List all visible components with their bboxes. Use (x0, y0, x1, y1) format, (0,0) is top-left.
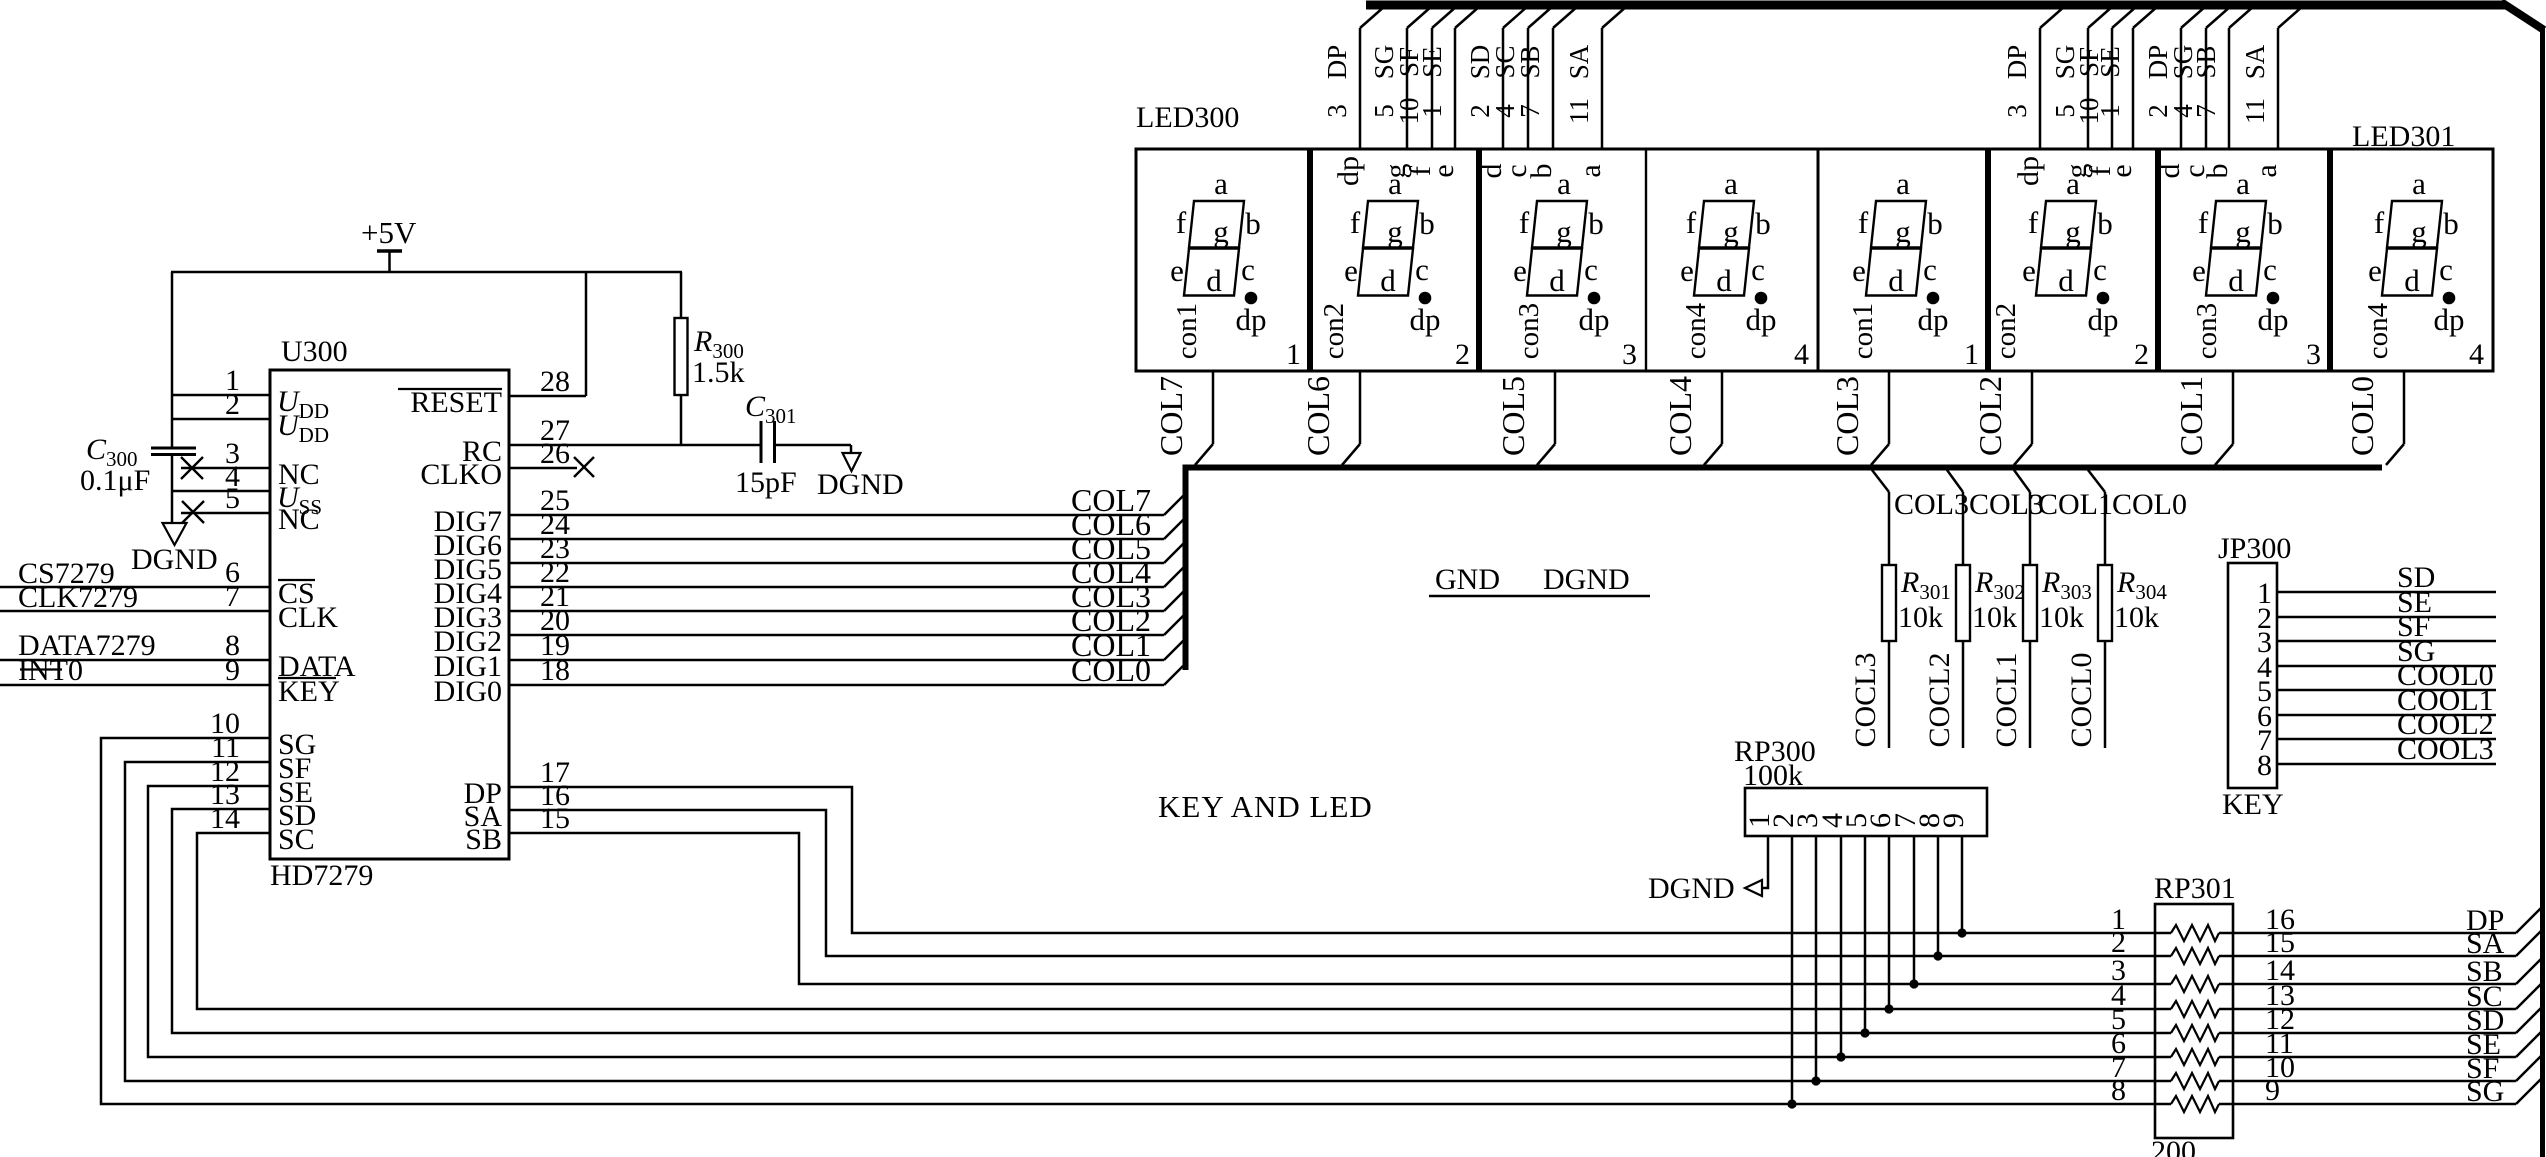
RP301 resistor element 1 zigzag (2171, 925, 2219, 941)
svg-text:a: a (1574, 164, 1607, 177)
wire segment pin 2 SD to top bus (1502, 28, 1505, 149)
wire RP300 pin 3 to row (1815, 836, 1818, 1081)
svg-text:SA: SA (1564, 44, 1594, 79)
svg-text:g: g (2235, 214, 2251, 249)
svg-text:COL1: COL1 (2173, 376, 2209, 456)
svg-text:a: a (1896, 166, 1910, 201)
svg-text:10k: 10k (2039, 601, 2084, 634)
svg-text:COL3: COL3 (1829, 376, 1865, 456)
svg-text:c: c (1241, 252, 1255, 287)
wire DIG COL5 (509, 562, 1164, 565)
wire cell 8 common to bus (COL0) (2403, 371, 2406, 444)
svg-text:COL0: COL0 (2344, 376, 2380, 456)
RP301 resistor element 6 zigzag (2171, 1049, 2219, 1065)
wire JP300 pin 3 SF (2277, 640, 2496, 643)
svg-text:COCL1: COCL1 (1990, 652, 2023, 747)
svg-text:3: 3 (1622, 338, 1637, 371)
svg-text:RP301: RP301 (2154, 872, 2236, 905)
svg-text:7: 7 (2191, 104, 2221, 118)
wire bus tap to resistor R303 (2014, 470, 2030, 492)
svg-text:d: d (1206, 263, 1222, 298)
svg-text:3: 3 (2002, 104, 2032, 118)
IC U300 HD7279 chip body (270, 370, 509, 859)
svg-text:8: 8 (2111, 1074, 2126, 1107)
wire segment pin 3 DP to top bus (1359, 28, 1362, 149)
svg-text:1: 1 (1964, 338, 1979, 371)
svg-text:COL7: COL7 (1153, 376, 1189, 456)
svg-text:f: f (1858, 205, 1869, 240)
wire INT0 (0, 684, 270, 687)
svg-text:g: g (1895, 214, 1911, 249)
svg-text:SB: SB (2191, 45, 2221, 78)
wire bus tap to resistor R301 (1872, 470, 1889, 492)
wire cell 5 common to bus (COL3) (1888, 371, 1891, 444)
svg-text:SB: SB (465, 823, 502, 856)
svg-text:e: e (2022, 253, 2036, 288)
svg-text:11: 11 (2240, 98, 2270, 124)
wire JP300 pin 8 COOL3 (2277, 763, 2496, 766)
svg-text:DP: DP (2002, 45, 2032, 80)
wire resistor R303 to COCL1 (2029, 641, 2032, 748)
svg-text:e: e (2105, 164, 2138, 177)
svg-text:dp: dp (1332, 156, 1365, 186)
wire RESET pull-up branch (585, 272, 588, 396)
svg-text:4: 4 (1794, 338, 1809, 371)
wire RP300 pin 4 to row (1840, 836, 1843, 1057)
svg-text:c: c (2093, 252, 2107, 287)
wire RP300 pin 5 to row (1864, 836, 1867, 1033)
wire segment pin 10 SF to top bus (2111, 28, 2114, 149)
wire cell 4 common to bus (COL4) (1721, 371, 1724, 444)
svg-text:d: d (2228, 263, 2244, 298)
wire DP from pin to bottom bus (509, 787, 2171, 933)
svg-text:con1: con1 (1847, 303, 1879, 359)
wire DIG COL3 (509, 610, 1164, 613)
svg-text:CLK: CLK (278, 601, 338, 634)
svg-text:10k: 10k (1898, 601, 1943, 634)
wire segment pin 3 DP to top bus (2039, 28, 2042, 149)
wire pin5 NC stub with X (181, 512, 270, 515)
svg-text:g: g (1723, 214, 1739, 249)
wire segment pin 4 SG to top bus (2205, 28, 2208, 149)
wire SC slant to right bus (2516, 983, 2542, 1009)
svg-text:e: e (1427, 164, 1460, 177)
svg-text:a: a (2250, 164, 2283, 177)
svg-text:DGND: DGND (817, 468, 904, 501)
svg-text:11: 11 (1564, 98, 1594, 124)
svg-text:28: 28 (540, 365, 570, 398)
wire SA slant to right bus (2516, 930, 2542, 956)
svg-text:COL5: COL5 (1495, 376, 1531, 456)
wire DIG COL4 (509, 586, 1164, 589)
wire pin4 USS (172, 490, 270, 493)
svg-text:COL3: COL3 (1969, 488, 2044, 521)
svg-text:10k: 10k (1972, 601, 2017, 634)
wire segment pin 7 SB to top bus (2228, 28, 2231, 149)
svg-text:con1: con1 (1171, 303, 1203, 359)
svg-text:b: b (2443, 206, 2459, 241)
wire SC from pin to bottom bus (197, 833, 2171, 1009)
svg-text:b: b (1927, 206, 1943, 241)
bus top right slant (2501, 2, 2544, 30)
resistor R303 (2023, 565, 2037, 641)
wire cell 7 common to bus (COL1) (2232, 371, 2235, 444)
wire pin3 NC stub with X (181, 467, 270, 470)
svg-text:COL0: COL0 (1071, 652, 1151, 688)
LED300 display package (1136, 149, 1818, 371)
svg-text:SA: SA (2240, 44, 2270, 79)
svg-text:KEY AND LED: KEY AND LED (1158, 789, 1373, 824)
svg-text:JP300: JP300 (2218, 532, 2291, 565)
display cell separator thick 2'|3' (2155, 149, 2161, 371)
svg-text:e: e (1170, 253, 1184, 288)
svg-text:con3: con3 (1513, 303, 1545, 359)
wire SD from pin to bottom bus (172, 809, 2171, 1033)
svg-text:c: c (1584, 252, 1598, 287)
svg-text:g: g (1213, 214, 1229, 249)
svg-text:2: 2 (2134, 338, 2149, 371)
display cell separator thin 3|4 (1645, 149, 1647, 371)
svg-text:HD7279: HD7279 (270, 859, 373, 892)
display cell separator thick 3'|4' (2327, 149, 2333, 371)
junction RP300 pin 8 (1933, 951, 1942, 960)
RP301 resistor element 5 zigzag (2171, 1025, 2219, 1041)
svg-text:b: b (1755, 206, 1771, 241)
bus vertical (column bus) (1183, 465, 1189, 671)
wire pin2 UDD (172, 418, 270, 421)
svg-text:e: e (2192, 253, 2206, 288)
svg-text:a: a (1214, 166, 1228, 201)
svg-text:f: f (1519, 205, 1530, 240)
svg-text:COCL3: COCL3 (1849, 652, 1882, 747)
svg-text:a: a (1557, 166, 1571, 201)
wire segment pin 4 SC to top bus (1527, 28, 1530, 149)
7-segment digit glyph cell 5 (1852, 166, 1948, 337)
svg-text:g: g (1387, 214, 1403, 249)
junction RP300 pin 6 (1884, 1004, 1893, 1013)
svg-text:8: 8 (2257, 749, 2272, 782)
svg-text:COOL3: COOL3 (2397, 733, 2494, 766)
RP301 resistor element 2 zigzag (2171, 948, 2219, 964)
svg-text:f: f (2028, 205, 2039, 240)
svg-text:5: 5 (225, 482, 240, 515)
wire pin27 RC (509, 444, 761, 447)
svg-text:1: 1 (1417, 104, 1447, 118)
wire JP300 pin 4 SG (2277, 665, 2496, 668)
wire bus tap to resistor R302 (1947, 470, 1963, 492)
svg-text:COL0: COL0 (2112, 488, 2187, 521)
wire SD slant to right bus (2516, 1007, 2542, 1033)
svg-text:dp: dp (2012, 156, 2045, 186)
svg-text:d: d (1549, 263, 1565, 298)
svg-text:dp: dp (1918, 302, 1949, 337)
svg-text:dp: dp (2088, 302, 2119, 337)
capacitor C300 (151, 447, 196, 450)
7-segment digit glyph cell 7 (2192, 166, 2288, 337)
svg-text:9: 9 (1937, 813, 1970, 828)
wire bus tap to resistor R304 (2088, 470, 2105, 492)
svg-text:f: f (1350, 205, 1361, 240)
wire DP slant to right bus (2516, 907, 2542, 933)
svg-text:con4: con4 (1680, 302, 1712, 359)
wire RP300 pin 2 to row (1791, 836, 1794, 1104)
svg-text:f: f (1686, 205, 1697, 240)
wire SE from pin to bottom bus (148, 786, 2171, 1057)
RP301 resistor element 3 zigzag (2171, 976, 2219, 992)
display cell separator thick 2|3 (1476, 149, 1482, 371)
wire SB from pin to bottom bus (509, 833, 2171, 984)
svg-text:1: 1 (2095, 104, 2125, 118)
svg-text:1.5k: 1.5k (692, 356, 745, 389)
junction RP300 pin 4 (1836, 1052, 1845, 1061)
wire segment pin 10 SF to top bus (1431, 28, 1434, 149)
svg-text:e: e (1344, 253, 1358, 288)
svg-text:d: d (1888, 263, 1904, 298)
bus right edge vertical (2540, 26, 2545, 1157)
junction RP300 pin 3 (1811, 1076, 1820, 1085)
svg-text:d: d (1380, 263, 1396, 298)
wire RP300 pin 7 to row (1913, 836, 1916, 984)
svg-text:SB: SB (1515, 45, 1545, 78)
wire pin1 UDD (172, 394, 270, 397)
svg-text:10k: 10k (2114, 601, 2159, 634)
svg-text:b: b (2097, 206, 2113, 241)
svg-text:d: d (2058, 263, 2074, 298)
wire resistor R302 to COCL2 (1962, 641, 1965, 748)
wire +5V top rail (171, 271, 682, 273)
ground DGND symbol (C301) (843, 453, 861, 471)
wire RP300 pin 6 to row (1888, 836, 1891, 1009)
junction RP300 pin 9 (1957, 928, 1966, 937)
wire SF slant to right bus (2516, 1055, 2542, 1081)
wire cell 1 common to bus (COL7) (1212, 371, 1215, 444)
svg-text:e: e (2368, 253, 2382, 288)
svg-text:7: 7 (225, 580, 240, 613)
svg-text:e: e (1513, 253, 1527, 288)
svg-text:e: e (1852, 253, 1866, 288)
svg-text:CLKO: CLKO (420, 458, 502, 491)
wire DIG COL6 (509, 538, 1164, 541)
svg-text:dp: dp (1579, 302, 1610, 337)
svg-text:dp: dp (1410, 302, 1441, 337)
display cell separator thick 1'|2' (1985, 149, 1991, 371)
svg-text:SE: SE (1417, 46, 1447, 78)
wire DIG COL0 (509, 684, 1164, 687)
svg-text:+5V: +5V (361, 215, 417, 250)
svg-text:NC: NC (278, 503, 320, 536)
svg-text:SC: SC (278, 823, 315, 856)
svg-text:COL2: COL2 (1972, 376, 2008, 456)
svg-text:9: 9 (2265, 1074, 2280, 1107)
wire cell 6 common to bus (COL2) (2031, 371, 2034, 444)
wire CLK7279 (0, 610, 270, 613)
wire SG from pin to bottom bus (101, 738, 2171, 1104)
RP301 resistor element 8 zigzag (2171, 1096, 2219, 1112)
svg-text:b: b (1245, 206, 1261, 241)
svg-text:3: 3 (2306, 338, 2321, 371)
display cell separator thick 1|2 (1307, 149, 1313, 371)
wire segment pin 7 SB to top bus (1552, 28, 1555, 149)
svg-text:LED300: LED300 (1136, 101, 1239, 134)
svg-text:dp: dp (2434, 302, 2465, 337)
svg-text:dp: dp (2258, 302, 2289, 337)
wire resistor R301 to COCL3 (1888, 641, 1891, 748)
svg-text:4: 4 (2469, 338, 2484, 371)
7-segment digit glyph cell 6 (2022, 166, 2118, 337)
7-segment digit glyph cell 8 (2368, 166, 2464, 337)
svg-text:COCL2: COCL2 (1923, 652, 1956, 747)
wire JP300 pin 7 COOL2 (2277, 738, 2496, 741)
svg-text:g: g (2411, 214, 2427, 249)
svg-text:KEY: KEY (2222, 788, 2284, 821)
svg-text:c: c (2439, 252, 2453, 287)
wire SA from pin to bottom bus (509, 810, 2171, 956)
svg-text:c: c (1415, 252, 1429, 287)
svg-text:7: 7 (1515, 104, 1545, 118)
resistor R300 (680, 272, 683, 318)
wire segment pin 5 SG to top bus (2087, 28, 2090, 149)
bus horizontal under displays (1183, 465, 2382, 471)
svg-text:COL1: COL1 (2038, 488, 2113, 521)
svg-text:1: 1 (1286, 338, 1301, 371)
7-segment digit glyph cell 1 (1170, 166, 1266, 337)
svg-text:d: d (2404, 263, 2420, 298)
svg-text:DGND: DGND (1648, 872, 1735, 905)
wire RP300 pin 8 to row (1937, 836, 1940, 956)
resistor R304 (2098, 565, 2112, 641)
wire segment pin 1 SE to top bus (1454, 28, 1457, 149)
svg-text:c: c (2263, 252, 2277, 287)
svg-text:0.1μF: 0.1μF (80, 464, 150, 497)
svg-text:COL6: COL6 (1300, 376, 1336, 456)
svg-text:g: g (2065, 214, 2081, 249)
svg-text:DGND: DGND (1543, 563, 1630, 596)
wire DIG COL1 (509, 659, 1164, 662)
7-segment digit glyph cell 3 (1513, 166, 1609, 337)
svg-text:SE: SE (2095, 46, 2125, 78)
wire pin26 CLKO stub with X (509, 467, 577, 470)
svg-text:26: 26 (540, 437, 570, 470)
wire SB slant to right bus (2516, 958, 2542, 984)
svg-text:15pF: 15pF (735, 466, 797, 499)
svg-text:COL3: COL3 (1894, 488, 1969, 521)
wire DATA7279 (0, 659, 270, 662)
svg-text:SG: SG (2466, 1075, 2504, 1108)
svg-text:d: d (1716, 263, 1732, 298)
wire RP300 pin1 to DGND (1762, 836, 1768, 888)
bus top segment horizontal (1366, 1, 2506, 10)
svg-text:RESET: RESET (410, 386, 502, 419)
svg-text:con4: con4 (2362, 302, 2394, 359)
wire SF from pin to bottom bus (125, 762, 2171, 1081)
svg-text:con2: con2 (1318, 303, 1350, 359)
wire JP300 pin 6 COOL1 (2277, 714, 2496, 717)
RP301 resistor element 7 zigzag (2171, 1073, 2219, 1089)
svg-text:DP: DP (1322, 45, 1352, 80)
svg-text:f: f (2198, 205, 2209, 240)
junction RP300 pin 5 (1860, 1028, 1869, 1037)
svg-text:b: b (1419, 206, 1435, 241)
wire JP300 pin 2 SE (2277, 616, 2496, 619)
wire SG slant to right bus (2516, 1078, 2542, 1104)
wire JP300 pin 1 SD (2277, 591, 2496, 594)
svg-text:a: a (2412, 166, 2426, 201)
RP301 resistor element 4 zigzag (2171, 1001, 2219, 1017)
svg-text:b: b (1588, 206, 1604, 241)
svg-text:g: g (1556, 214, 1572, 249)
wire segment pin 2 DP to top bus (2180, 28, 2183, 149)
LED301 display package (1818, 149, 2493, 371)
wire C301 to DGND (774, 444, 851, 447)
svg-text:con3: con3 (2191, 303, 2223, 359)
svg-text:a: a (2236, 166, 2250, 201)
ground DGND symbol (C300) (163, 523, 187, 545)
svg-text:2: 2 (225, 388, 240, 421)
svg-text:DIG0: DIG0 (434, 675, 502, 708)
svg-text:CLK7279: CLK7279 (18, 581, 138, 614)
svg-text:e: e (1680, 253, 1694, 288)
wire UDD supply vertical (171, 272, 174, 448)
wire segment pin 11 SA to top bus (2277, 28, 2280, 149)
svg-text:a: a (1724, 166, 1738, 201)
resistor R301 (1882, 565, 1896, 641)
svg-text:con2: con2 (1990, 303, 2022, 359)
wire cell 3 common to bus (COL5) (1554, 371, 1557, 444)
svg-text:KEY: KEY (278, 675, 340, 708)
svg-text:U300: U300 (281, 335, 348, 368)
svg-text:b: b (2267, 206, 2283, 241)
junction RP300 pin 7 (1909, 979, 1918, 988)
svg-text:b: b (1525, 164, 1558, 179)
wire pin28 RESET to branch (509, 395, 586, 398)
wire RP300 pin 9 to row (1961, 836, 1964, 933)
svg-text:dp: dp (1236, 302, 1267, 337)
wire cell 2 common to bus (COL6) (1359, 371, 1362, 444)
svg-text:DGND: DGND (131, 543, 218, 576)
svg-text:14: 14 (210, 802, 240, 835)
ground DGND symbol (RP300) (1745, 880, 1762, 896)
svg-text:f: f (1176, 205, 1187, 240)
wire SE slant to right bus (2516, 1031, 2542, 1057)
svg-text:3: 3 (1322, 104, 1352, 118)
svg-text:c: c (1923, 252, 1937, 287)
svg-text:b: b (2201, 164, 2234, 179)
wire segment pin 5 SG to top bus (1406, 28, 1409, 149)
svg-text:200: 200 (2151, 1135, 2196, 1157)
svg-text:c: c (1751, 252, 1765, 287)
capacitor C301 (760, 421, 763, 463)
svg-text:2: 2 (1455, 338, 1470, 371)
wire DIG COL7 (509, 514, 1164, 517)
svg-text:15: 15 (540, 802, 570, 835)
svg-text:dp: dp (1746, 302, 1777, 337)
wire C300 to DGND (171, 454, 174, 523)
wire JP300 pin 5 COOL0 (2277, 689, 2496, 692)
wire resistor R304 to COCL0 (2104, 641, 2107, 748)
wire DIG COL2 (509, 634, 1164, 637)
wire segment pin 1 SE to top bus (2132, 28, 2135, 149)
svg-text:f: f (2374, 205, 2385, 240)
svg-text:COCL0: COCL0 (2065, 652, 2098, 747)
junction RP300 pin 2 (1787, 1099, 1796, 1108)
svg-text:GND: GND (1435, 563, 1500, 596)
resistor R302 (1956, 565, 1970, 641)
7-segment digit glyph cell 4 (1680, 166, 1776, 337)
INT0 overline (20, 668, 62, 670)
7-segment digit glyph cell 2 (1344, 166, 1440, 337)
svg-text:COL4: COL4 (1662, 376, 1698, 456)
wire CS7279 (0, 586, 270, 589)
